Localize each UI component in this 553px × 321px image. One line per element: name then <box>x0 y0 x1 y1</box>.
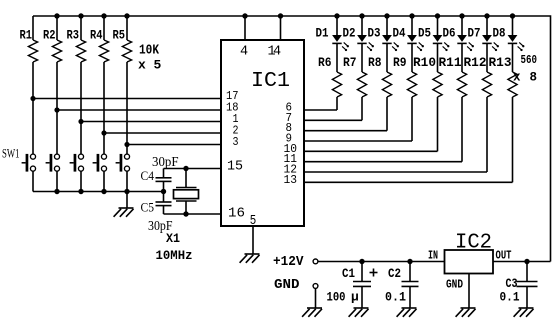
svg-text:3: 3 <box>233 135 239 149</box>
svg-text:4: 4 <box>240 45 248 60</box>
svg-text:C5: C5 <box>141 200 155 215</box>
svg-text:D2: D2 <box>343 26 356 41</box>
svg-text:X1: X1 <box>166 231 180 246</box>
svg-text:µ: µ <box>351 290 359 305</box>
svg-text:R4: R4 <box>90 28 103 43</box>
svg-text:D5: D5 <box>418 26 431 41</box>
svg-text:D8: D8 <box>493 26 506 41</box>
svg-text:GND: GND <box>446 278 463 292</box>
svg-text:IC1: IC1 <box>251 70 290 93</box>
svg-text:R9: R9 <box>393 55 407 70</box>
svg-text:C4: C4 <box>141 168 155 183</box>
svg-text:R12: R12 <box>464 55 487 70</box>
svg-text:R10: R10 <box>413 55 436 70</box>
svg-text:R3: R3 <box>67 28 80 43</box>
svg-text:D1: D1 <box>316 26 329 41</box>
svg-text:SW1: SW1 <box>2 146 20 161</box>
svg-text:5: 5 <box>250 214 256 229</box>
svg-text:15: 15 <box>227 160 243 175</box>
svg-text:IN: IN <box>428 249 438 263</box>
svg-text:D3: D3 <box>368 26 381 41</box>
svg-text:R2: R2 <box>43 28 56 43</box>
svg-text:13: 13 <box>284 173 298 187</box>
svg-text:D6: D6 <box>443 26 456 41</box>
svg-text:R5: R5 <box>113 28 126 43</box>
svg-text:x: x <box>513 71 521 85</box>
svg-text:R6: R6 <box>318 55 332 70</box>
svg-text:100: 100 <box>327 290 346 305</box>
svg-text:R8: R8 <box>368 55 382 70</box>
svg-text:D7: D7 <box>468 26 481 41</box>
svg-text:0.1: 0.1 <box>385 290 406 305</box>
svg-text:C1: C1 <box>342 267 355 281</box>
svg-text:8: 8 <box>530 71 538 85</box>
svg-text:GND: GND <box>274 278 300 293</box>
svg-text:R11: R11 <box>439 55 462 70</box>
svg-text:x: x <box>138 58 146 73</box>
svg-text:5: 5 <box>154 58 162 73</box>
svg-text:OUT: OUT <box>496 249 512 263</box>
svg-text:R1: R1 <box>20 28 33 43</box>
svg-text:C2: C2 <box>388 267 401 281</box>
svg-text:0.1: 0.1 <box>500 290 520 305</box>
svg-text:10MHz: 10MHz <box>156 248 193 263</box>
svg-text:30pF: 30pF <box>152 154 179 169</box>
svg-text:16: 16 <box>228 207 245 222</box>
svg-text:R7: R7 <box>343 55 357 70</box>
svg-text:D4: D4 <box>393 26 406 41</box>
svg-text:+12V: +12V <box>273 255 304 270</box>
svg-text:4: 4 <box>273 45 281 60</box>
svg-text:IC2: IC2 <box>455 232 492 255</box>
svg-text:560: 560 <box>521 53 538 67</box>
svg-text:10K: 10K <box>139 44 160 59</box>
svg-text:R13: R13 <box>489 55 512 70</box>
